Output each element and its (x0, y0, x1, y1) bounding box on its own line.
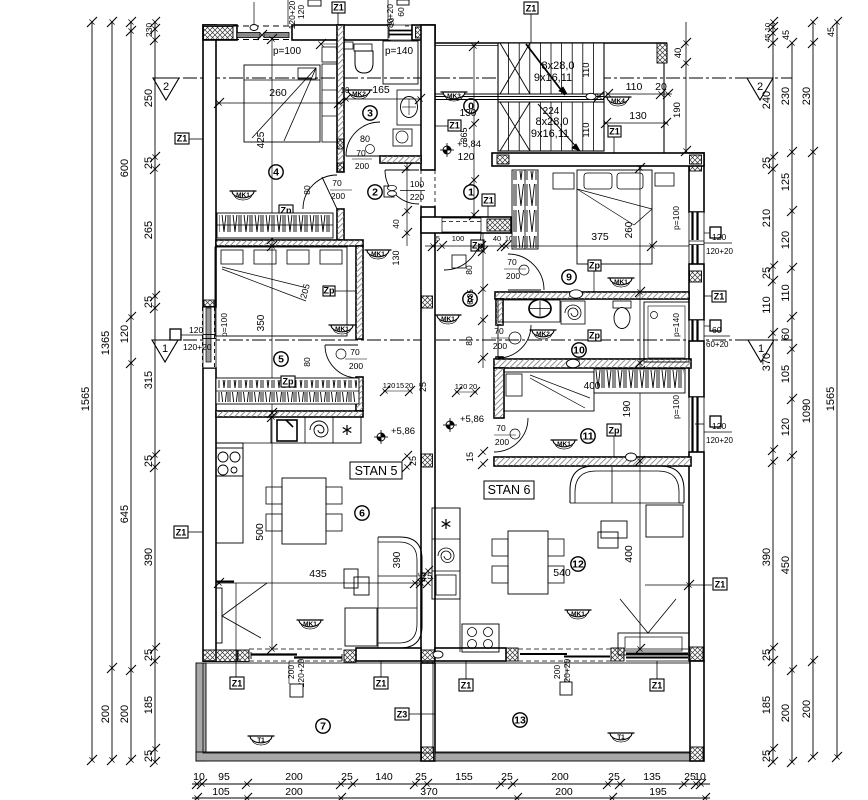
corridor8 cabinet (452, 255, 466, 268)
wall corridor8 right lower (496, 357, 503, 368)
middle wall upper section (421, 25, 435, 170)
window W1a top wall (237, 33, 260, 38)
svg-text:190: 190 (622, 400, 633, 417)
top wall segment left corner (203, 25, 237, 40)
bath10 shower (644, 302, 689, 362)
bedroom4 nightstand (322, 47, 337, 62)
level mark +5,86 stan5 (377, 433, 385, 441)
svg-text:+5,84: +5,84 (457, 139, 481, 150)
stair break cross upper (500, 43, 530, 94)
Z1 marker top wall (332, 2, 345, 13)
stair risers lower flight (508, 102, 510, 151)
svg-text:390: 390 (392, 551, 403, 568)
svg-text:25: 25 (417, 572, 427, 582)
terrace13 outline (435, 663, 690, 753)
Zp bedroom9 leader (593, 271, 595, 292)
hatch terrace right bottom (690, 747, 703, 761)
bedroom9 circled number (562, 270, 576, 284)
svg-text:200: 200 (331, 191, 345, 201)
bedroom5 pillows (221, 250, 243, 264)
window in right wall (bath 10) (689, 320, 704, 341)
svg-text:25: 25 (408, 456, 418, 466)
bedroom4 blanket diagonals (252, 68, 316, 138)
svg-text:540: 540 (553, 567, 571, 579)
hatch block stair corner right (657, 43, 667, 63)
vent MK2 bath10 (532, 330, 554, 337)
svg-text:MK4: MK4 (611, 98, 625, 105)
bedroom4 pillow (298, 68, 316, 79)
dim 25 middle wall (423, 566, 433, 576)
svg-text:350: 350 (256, 314, 267, 331)
svg-text:25: 25 (143, 455, 155, 467)
svg-text:185: 185 (143, 696, 155, 714)
top wall window band dashed edges (233, 25, 292, 27)
svg-text:T1: T1 (257, 737, 265, 744)
top wall middle segment (292, 25, 390, 40)
section line 1-1 (dash-dot) (160, 339, 792, 341)
bedroom9 bed (577, 170, 652, 264)
svg-text:Zp: Zp (324, 286, 335, 296)
bedroom9 dim 375 (504, 245, 689, 247)
Z1 marker porch (608, 126, 621, 137)
sofa5 ottoman (345, 608, 377, 646)
hatch block middle wall at hall stub (422, 218, 436, 232)
svg-text:8x28,0: 8x28,0 (535, 116, 568, 128)
room4 circled number (269, 165, 283, 179)
window W2 bathroom top wall (388, 25, 412, 40)
Zp bedroom11 (607, 424, 621, 436)
svg-text:120: 120 (383, 381, 396, 390)
svg-text:370: 370 (420, 786, 438, 798)
svg-text:210: 210 (761, 209, 773, 227)
bathroom3 circled number (363, 106, 377, 120)
kitchen12 sink (436, 575, 456, 595)
bath10 circled number (572, 343, 586, 357)
vent MK1 room4 (232, 191, 254, 198)
bedroom4 dim 260 line (217, 102, 341, 104)
svg-text:MK1: MK1 (335, 326, 349, 333)
svg-text:25: 25 (761, 649, 773, 661)
door room5 arc (325, 345, 358, 378)
kitchen5 counter edge line (216, 442, 271, 444)
bottom wall stan5 hatch left 2 (238, 650, 249, 662)
svg-text:MK2: MK2 (536, 331, 550, 338)
right wall window dim 120 (710, 227, 721, 238)
terrace 13 right wall (690, 661, 704, 761)
svg-text:9: 9 (566, 272, 572, 284)
terrace 7 parapet bottom (196, 752, 434, 761)
svg-text:130: 130 (391, 250, 401, 265)
kitchen5 unit star (346, 425, 348, 435)
corridor8 dim line (482, 233, 484, 368)
top wall of right wing (bedroom 9) (492, 153, 704, 166)
hall2 entry door (385, 170, 419, 204)
window W-left in left wall (203, 307, 216, 368)
bedroom4 closet strip (322, 64, 337, 142)
door hall1 arc (444, 233, 481, 270)
vent MK2 bathroom3 (348, 90, 370, 97)
svg-text:1365: 1365 (100, 331, 112, 355)
svg-text:200: 200 (100, 705, 112, 723)
bedroom5 blanket lines (222, 267, 303, 287)
svg-text:600: 600 (119, 159, 131, 177)
bottom dim chain row 2 (192, 797, 710, 799)
ellipse marker top wall (250, 25, 258, 31)
svg-text:390: 390 (761, 548, 773, 566)
svg-text:200: 200 (119, 705, 131, 723)
stair block top wall line (435, 42, 667, 44)
svg-text:MK1: MK1 (571, 611, 585, 618)
svg-text:190: 190 (672, 102, 683, 118)
svg-text:400: 400 (584, 381, 601, 392)
kitchen12 column (432, 508, 460, 599)
svg-text:80: 80 (302, 185, 312, 195)
hatch block middle wall bottom (422, 650, 435, 663)
svg-text:6,35: 6,35 (466, 289, 475, 305)
svg-text:Z1: Z1 (715, 580, 726, 590)
sofa12 chaise (646, 505, 683, 537)
coffee tables 5 (344, 569, 358, 588)
Z1 marker left wall lower (174, 526, 188, 538)
svg-text:100: 100 (452, 234, 465, 243)
svg-text:110: 110 (581, 62, 592, 77)
svg-text:265: 265 (143, 221, 155, 239)
window in right wall (bedroom 11) (689, 397, 704, 452)
outer wall left upper (203, 25, 216, 307)
kitchen12 cooktop (462, 624, 499, 652)
dim 25 near stan5 (402, 451, 412, 461)
stair risers upper flight (508, 43, 510, 94)
svg-text:120: 120 (119, 325, 131, 343)
svg-text:435: 435 (309, 568, 327, 580)
wall room11 left (494, 368, 504, 418)
sofa12 back (570, 466, 684, 503)
vent MK1 bedroom11 (553, 440, 575, 447)
wall room4 right below door (337, 209, 344, 240)
bottom dim chain row 1 (192, 783, 710, 785)
Zp bath10 (588, 330, 601, 341)
terrace divider wall (421, 663, 435, 761)
svg-text:250: 250 (143, 89, 155, 107)
kitchen12 star unit (445, 519, 447, 529)
Z1 marker hall1 (482, 194, 495, 206)
svg-text:25: 25 (415, 771, 427, 783)
living12 dim line Z1 (645, 584, 712, 586)
svg-text:8x28,0: 8x28,0 (541, 60, 574, 72)
hall1 vertical dim line (473, 44, 475, 217)
terrace 13 parapet bottom (435, 752, 691, 761)
bedroom4 vertical dim line (271, 37, 273, 649)
svg-text:60: 60 (396, 7, 406, 17)
svg-text:135: 135 (643, 771, 661, 783)
svg-text:120+20: 120+20 (183, 342, 212, 352)
svg-text:Z1: Z1 (609, 127, 620, 137)
svg-text:120+20: 120+20 (706, 436, 733, 445)
svg-text:Z1: Z1 (714, 292, 725, 302)
ellipse marker wall room9 (570, 290, 583, 298)
door bath10 (498, 325, 531, 358)
svg-text:MK1: MK1 (441, 316, 455, 323)
bedroom5 circled number (274, 352, 288, 366)
svg-text:Zp: Zp (589, 261, 600, 271)
coffee tables 12 (601, 521, 627, 538)
door bathroom3 arc (346, 122, 380, 156)
sofa12 seat line (575, 502, 684, 504)
svg-text:200: 200 (801, 700, 813, 718)
svg-text:p=100: p=100 (273, 46, 302, 57)
hatch block middle wall y454 (422, 454, 433, 467)
svg-text:240: 240 (761, 91, 773, 109)
svg-text:Z1: Z1 (483, 196, 494, 206)
svg-text:200: 200 (552, 665, 562, 679)
Z1 marker right wall bath (712, 291, 726, 302)
svg-text:80: 80 (464, 265, 474, 275)
top wall window dim labels left (287, 0, 289, 25)
left dim chain room segments (154, 22, 156, 762)
svg-text:200: 200 (495, 437, 509, 447)
right wall mid 2 (689, 341, 704, 397)
table5 chairs (266, 487, 282, 504)
bottom wall stan6 hatch right corner (690, 647, 703, 661)
bottom wall stan5 hatch left (203, 650, 237, 662)
right dim chain 2 (791, 43, 793, 762)
svg-text:Z1: Z1 (526, 4, 537, 14)
small dim below bath wall (320, 43, 342, 45)
dim 435 living6 (217, 582, 421, 584)
svg-text:1090: 1090 (801, 399, 813, 423)
svg-text:110: 110 (761, 296, 773, 314)
ellipse marker stair landing (586, 93, 596, 99)
svg-text:25: 25 (761, 267, 773, 279)
ellipse marker bottom wall stan6 (433, 651, 443, 658)
svg-text:120: 120 (712, 232, 726, 242)
door bedroom11 (494, 418, 528, 452)
window in right wall (bedroom 9) (689, 212, 704, 264)
porch dim line 110/20 (606, 93, 672, 95)
level mark +5,86 stan6 (446, 421, 454, 429)
hatch block right wing wall left (497, 155, 509, 164)
table12 chairs (492, 539, 508, 556)
svg-text:Zp: Zp (589, 331, 600, 341)
svg-text:230: 230 (780, 87, 792, 105)
bottom wall stan5 slider opening (249, 648, 344, 650)
svg-text:500: 500 (254, 523, 266, 541)
sofa5 back (378, 537, 422, 648)
svg-text:120: 120 (296, 5, 306, 19)
svg-text:STAN 5: STAN 5 (355, 464, 398, 478)
stair direction line lower (538, 104, 580, 151)
svg-text:315: 315 (143, 371, 155, 389)
svg-text:25: 25 (143, 750, 155, 762)
svg-text:60: 60 (780, 328, 792, 340)
corridor8 circled number (463, 292, 477, 306)
svg-text:Z1: Z1 (177, 134, 188, 144)
dim 15 corridor end (478, 447, 488, 457)
svg-text:MK1: MK1 (303, 621, 317, 628)
svg-text:200: 200 (285, 786, 303, 798)
stair break cross lower (500, 102, 530, 151)
bedroom9 nightstands (553, 173, 574, 189)
wall bath10/room11 (494, 359, 691, 368)
svg-text:60+20: 60+20 (706, 340, 729, 349)
svg-text:12: 12 (572, 559, 584, 571)
wall room5 right (356, 246, 363, 339)
hatch bath wall y139 (338, 139, 344, 149)
hatch block right wall y271 (690, 271, 702, 282)
right dim chain inner (772, 22, 774, 762)
svg-text:110: 110 (626, 81, 643, 93)
bathroom3 dim line 165 (344, 98, 422, 100)
hatch block middle wall y296 (422, 296, 433, 308)
svg-text:195: 195 (649, 786, 667, 798)
wall bedroom9/bath10 (495, 292, 689, 299)
vent T1 terrace7 (250, 736, 272, 743)
svg-text:200: 200 (286, 665, 296, 679)
door bedroom9 (508, 254, 544, 290)
section marker 2 left (153, 78, 179, 100)
svg-text:390: 390 (143, 548, 155, 566)
bottom wall stan6 hatch 2 (611, 648, 624, 661)
top wall right segment (412, 25, 435, 40)
label STAN 5 (350, 462, 402, 479)
svg-text:MK1: MK1 (236, 192, 250, 199)
Zp box room4 door (279, 205, 293, 216)
svg-text:645: 645 (119, 505, 131, 523)
section marker 2 right (747, 78, 773, 100)
svg-text:Z1: Z1 (176, 528, 187, 538)
svg-text:Zp: Zp (283, 377, 294, 387)
level mark +5,84 (443, 146, 451, 154)
svg-text:9x16,11: 9x16,11 (531, 128, 569, 140)
svg-text:120: 120 (458, 152, 475, 163)
bath10 washer (561, 301, 585, 324)
svg-text:2: 2 (163, 81, 169, 93)
svg-text:110: 110 (780, 284, 792, 302)
bathroom3 shower (383, 41, 418, 84)
svg-text:Zp: Zp (609, 426, 620, 436)
bedroom9 closet (512, 170, 538, 249)
left dim chain 1365/200 (111, 22, 113, 760)
stair landing lines (435, 93, 604, 95)
hall1 circled number (464, 185, 478, 199)
svg-text:260: 260 (624, 221, 635, 238)
svg-text:120+20: 120+20 (706, 247, 733, 256)
svg-text:105: 105 (212, 786, 230, 798)
svg-text:80: 80 (302, 357, 312, 367)
svg-text:70: 70 (350, 347, 360, 357)
svg-text:120: 120 (780, 418, 792, 436)
svg-text:2: 2 (372, 187, 378, 199)
svg-text:95: 95 (218, 771, 230, 783)
svg-text:9x16,11: 9x16,11 (534, 72, 572, 84)
bathroom3 vanity counter (397, 90, 421, 125)
svg-text:25: 25 (501, 771, 513, 783)
svg-text:Z1: Z1 (333, 3, 344, 13)
svg-text:15: 15 (465, 452, 475, 462)
svg-text:1565: 1565 (80, 387, 92, 411)
svg-text:Z1: Z1 (376, 679, 387, 689)
hatch block top-left corner (204, 27, 234, 40)
svg-text:60: 60 (712, 325, 722, 335)
hatch hall1 stub (487, 219, 511, 231)
svg-text:+5,86: +5,86 (460, 414, 484, 425)
svg-text:375: 375 (591, 231, 609, 243)
top wall window dim labels right (387, 0, 389, 25)
wall room5/kitchen horizontal (216, 411, 363, 417)
svg-text:Z3: Z3 (397, 710, 408, 720)
terrace 7 parapet left (196, 663, 206, 761)
kitchen5 upper cabinets (271, 417, 361, 443)
Z1 terrace13 right (650, 679, 664, 691)
vent MK1 hall2 (367, 250, 389, 257)
right wall window dim 60 (710, 320, 721, 331)
Zp box room5 wardrobe (281, 376, 295, 387)
porch vertical dim 40/190 (685, 22, 687, 153)
bedroom4 bed (244, 65, 320, 142)
porch dim line 130 (604, 122, 668, 124)
living6 circled number (355, 506, 369, 520)
bedroom9 pillows (584, 173, 612, 189)
svg-text:MK1: MK1 (557, 441, 571, 448)
svg-text:10: 10 (763, 23, 772, 31)
svg-text:p=100: p=100 (219, 313, 229, 337)
section marker 1 left (152, 340, 178, 362)
svg-text:25: 25 (143, 157, 155, 169)
svg-text:10: 10 (694, 771, 706, 783)
kitchen5 left counter (216, 443, 243, 543)
svg-text:25: 25 (143, 296, 155, 308)
svg-text:Z1: Z1 (652, 681, 663, 691)
bedroom5 wardrobe band (216, 378, 359, 404)
svg-text:MK1: MK1 (371, 251, 385, 258)
bath10 sink (529, 300, 551, 318)
Z3 terrace7 (395, 708, 409, 720)
svg-text:105: 105 (780, 365, 792, 383)
bottom wall stan6 window 2 (626, 653, 688, 655)
hall2 door bell symbol (384, 186, 394, 197)
kitchen5 stove spiral (310, 421, 328, 437)
bath10 counter (498, 300, 560, 322)
svg-text:p=140: p=140 (385, 46, 414, 57)
svg-text:370: 370 (761, 353, 773, 371)
tv cabinet 5 (216, 588, 222, 643)
table5 (282, 478, 326, 544)
outer wall left lower (203, 368, 216, 661)
right wall mid 1 (689, 264, 704, 320)
door room4 arc (303, 175, 337, 209)
svg-text:110: 110 (581, 122, 592, 137)
vent MK4 (607, 97, 629, 104)
staircase block outline (498, 43, 604, 151)
bedroom11 bed (504, 372, 594, 411)
svg-text:STAN 6: STAN 6 (488, 483, 531, 497)
svg-text:25: 25 (761, 157, 773, 169)
svg-text:120: 120 (712, 421, 726, 431)
svg-text:25: 25 (341, 771, 353, 783)
svg-text:p=100: p=100 (671, 395, 681, 419)
vent MK1 corridor8 (437, 315, 459, 322)
bottom wall stan6 hatch 1 (506, 648, 518, 661)
svg-text:1565: 1565 (825, 387, 837, 411)
terrace13 circled number (513, 713, 527, 727)
Zp hall1 door (471, 240, 484, 251)
svg-text:185: 185 (761, 696, 773, 714)
right dim chain outer 1565 (836, 22, 838, 757)
Z1 marker stairs top (524, 2, 538, 14)
bathroom3 corner shelf (344, 42, 353, 49)
svg-text:70: 70 (494, 326, 504, 336)
terrace7 outline (203, 663, 433, 753)
